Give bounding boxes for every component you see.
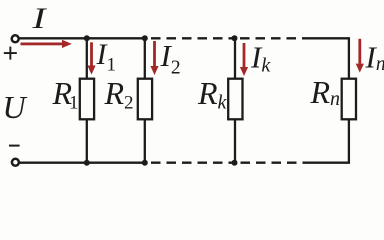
resistor Rn [342, 79, 356, 120]
plus sign label [4, 47, 17, 60]
node A' junction bottom of R1 [84, 160, 90, 166]
wire: bottom bus dashed segment node K' toward Rn [241, 162, 305, 164]
terminal + (open circle) [12, 35, 19, 42]
wire: R1 branch bottom lead [86, 118, 88, 163]
minus sign label [9, 145, 20, 147]
resistor R1 [80, 79, 94, 120]
terminal - (open circle) [12, 159, 19, 166]
wire: top bus dashed segment node B to node K [151, 37, 235, 39]
node B' junction bottom of R2 [142, 160, 148, 166]
svg-text:U: U [3, 89, 28, 125]
node K junction top of Rk [232, 35, 238, 41]
wire: top-right solid corner into Rn [305, 38, 349, 80]
wire: Rk branch top lead [234, 38, 236, 80]
wire: R1 branch top lead [86, 38, 88, 80]
arrow: branch current Ik [240, 43, 248, 76]
wire: R2 branch bottom lead [144, 118, 146, 163]
arrow: branch current In [356, 39, 364, 73]
wire: top bus solid segment from + terminal to node B [19, 37, 147, 39]
resistor R2 [138, 79, 152, 120]
resistor Rk [228, 79, 242, 120]
node A junction top of R1 [84, 35, 90, 41]
wire: bottom bus dashed segment node B' to node K' [151, 162, 235, 164]
arrow: branch current I1 [87, 42, 95, 74]
wire: R2 branch top lead [144, 38, 146, 80]
wire: Rk branch bottom lead [234, 118, 236, 163]
arrow: branch current I2 [150, 41, 158, 75]
arrow: source current I [21, 40, 72, 48]
wire: top bus dashed segment node K toward Rn [240, 37, 305, 39]
node B junction top of R2 [142, 35, 148, 41]
node K' junction bottom of Rk [232, 160, 238, 166]
wire: bottom-right solid corner from Rn [304, 118, 349, 163]
wire: bottom bus solid segment from - terminal to node B' [19, 162, 147, 164]
